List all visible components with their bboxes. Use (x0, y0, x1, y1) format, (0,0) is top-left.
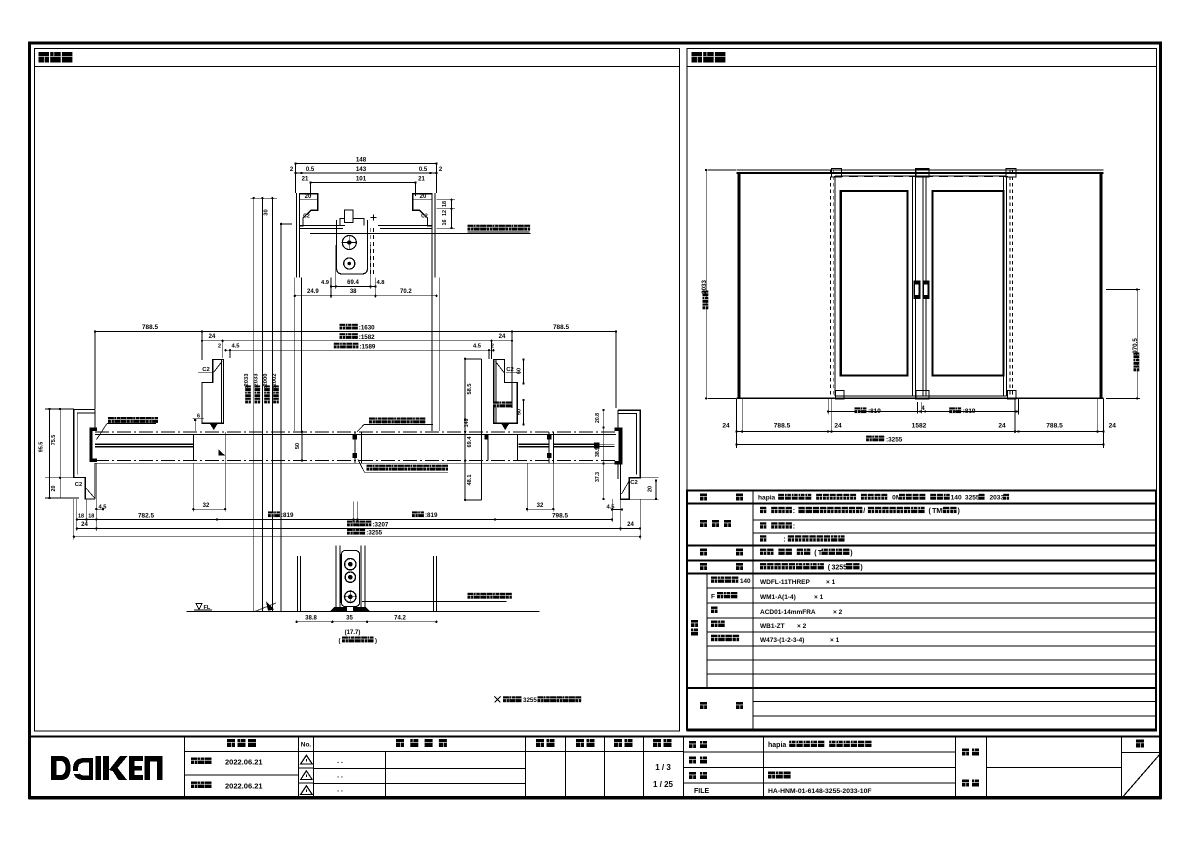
door2 stile pair (354, 432, 356, 463)
svg-text:48.1: 48.1 (467, 475, 473, 486)
bottom guide center (916, 391, 929, 400)
FL level mark (196, 604, 202, 610)
svg-text:35: 35 (346, 615, 353, 621)
svg-text:58.5: 58.5 (467, 384, 473, 395)
section height labels rotated (245, 398, 251, 404)
bottom detail guide outer left pair (335, 546, 337, 612)
right 32 dim (527, 508, 553, 510)
door1 glass panel (841, 191, 908, 376)
svg-text:75.5: 75.5 (51, 435, 57, 446)
door slabs top line (835, 175, 1007, 177)
left jamb black triangle (210, 423, 219, 430)
bottom detail dim row (297, 621, 437, 623)
把手 value (760, 549, 766, 555)
svg-text:2022.06.21: 2022.06.21 (225, 782, 263, 791)
要式 label (700, 494, 707, 501)
svg-text::819: :819 (425, 512, 438, 519)
door2 right stile pair (548, 432, 550, 463)
rail channel floor left (303, 225, 345, 227)
承認 header (536, 739, 544, 747)
bottom detail door verticals right pair (432, 556, 434, 611)
svg-text:): ) (375, 639, 377, 645)
hidden frame dashed verticals left (830, 170, 832, 398)
svg-text:× 1: × 1 (826, 579, 836, 586)
bottom guide door1 left (836, 391, 845, 400)
mid-right jamb C2 profile (494, 360, 517, 424)
svg-text:95.5: 95.5 (39, 442, 45, 453)
left wall jamb profile (74, 410, 95, 500)
svg-text:20: 20 (420, 194, 427, 200)
right jamb 20 dim (655, 481, 657, 500)
left height dim line 2033 (705, 170, 707, 398)
svg-text:798.5: 798.5 (552, 512, 568, 519)
svg-text:2: 2 (290, 167, 294, 173)
front view head bottom line (737, 172, 1104, 174)
svg-text::2033: :2033 (254, 373, 260, 389)
改訂履歴 header (396, 739, 404, 747)
vertical frame member pocket in band (487, 434, 489, 460)
svg-text:2: 2 (439, 167, 443, 173)
svg-text:4.8: 4.8 (376, 280, 385, 286)
svg-text:60: 60 (517, 368, 523, 374)
svg-text:16: 16 (442, 220, 448, 226)
top detail dim row 21 101 21 (311, 182, 416, 184)
svg-text:(17.7): (17.7) (345, 630, 361, 636)
図名 value 三面図 (768, 772, 775, 779)
spec table outer (687, 491, 1156, 730)
svg-text:788.5: 788.5 (1046, 423, 1063, 430)
svg-text:. .: . . (337, 787, 343, 794)
floor line (186, 610, 539, 612)
svg-text:(: ( (814, 550, 817, 557)
right panel frame (687, 49, 1157, 732)
svg-text:C2: C2 (421, 213, 428, 219)
rail channel floor right (378, 225, 432, 227)
right jamb C2 chamfer (622, 481, 630, 494)
overall width dim row 3255 (737, 444, 1104, 446)
mid-right jamb 50 dim (523, 400, 525, 425)
right panel title band line (687, 65, 1157, 67)
bottom dim row 4.9 69.4 4.8 (331, 285, 375, 287)
改訂日 label and date (191, 782, 198, 789)
svg-text:0.5: 0.5 (306, 167, 315, 173)
svg-text:30: 30 (264, 209, 270, 215)
svg-text:No.: No. (301, 742, 312, 749)
svg-text::2033: :2033 (701, 280, 708, 296)
left panel frame (35, 49, 680, 732)
svg-text:24: 24 (722, 423, 730, 430)
left 32 dim (193, 508, 225, 510)
svg-text::1589: :1589 (360, 344, 376, 351)
制定日 label and date (191, 758, 198, 765)
svg-text:782.5: 782.5 (138, 512, 154, 519)
svg-text:788.5: 788.5 (774, 423, 791, 430)
mid-right jamb 60 dim (523, 359, 525, 383)
金物 label (700, 563, 707, 570)
仕上げ label (700, 520, 707, 527)
spec table thin row lines value col (753, 519, 1156, 521)
制定日 row line (185, 774, 299, 776)
title block header row line (185, 751, 684, 753)
hidden head rail dashed line (834, 175, 1010, 177)
rail housing outer verticals (296, 193, 298, 277)
頁 header line (1122, 752, 1162, 754)
件名 label (962, 749, 969, 756)
svg-text:4.5: 4.5 (473, 344, 482, 350)
品番 sub column line (706, 574, 708, 689)
svg-text:788.5: 788.5 (553, 324, 569, 331)
svg-text::3207: :3207 (373, 521, 389, 528)
small dim in band (301, 432, 303, 461)
plan top dim row 1630 (95, 330, 616, 332)
把手 label (700, 549, 707, 556)
備考 label (700, 702, 707, 709)
svg-text::819: :819 (868, 408, 881, 415)
note 寸法は3255幅の場合を示す (495, 697, 501, 703)
svg-text:(: ( (339, 639, 341, 645)
諸員 label (962, 780, 969, 787)
door2 right edge (1003, 176, 1005, 396)
svg-text:WDFL-11THREP: WDFL-11THREP (760, 579, 811, 586)
svg-text:4: 4 (921, 405, 925, 412)
spec table thick row lines (687, 503, 1156, 505)
svg-text:hapia: hapia (768, 742, 786, 749)
svg-text:20: 20 (305, 194, 312, 200)
right panel title 正面図 (692, 52, 703, 63)
plan band top inner line (95, 433, 616, 435)
floor left arrow (266, 602, 275, 611)
left panel title band line (35, 65, 680, 67)
svg-text::970.5: :970.5 (1132, 338, 1139, 356)
plan bottom dim row B 3207 (77, 527, 640, 529)
top detail dim row 148 (296, 163, 437, 165)
left jamb chamfer diagonal (214, 362, 223, 373)
plan band bottom boundary dash-dot (95, 460, 616, 462)
svg-text:24.9: 24.9 (307, 289, 319, 295)
svg-text:24: 24 (834, 423, 842, 430)
leader 点線は芯材位置を示す (369, 418, 375, 424)
front view floor line (737, 397, 1104, 399)
svg-text:F: F (711, 594, 715, 601)
確認 header (576, 739, 584, 747)
svg-text:24: 24 (998, 423, 1006, 430)
door2 glass panel (933, 191, 1004, 376)
right dim label 引手高 970.5 (1134, 366, 1140, 372)
frame width dim row (737, 431, 1104, 433)
svg-text:32: 32 (203, 503, 210, 509)
svg-text:18: 18 (78, 513, 84, 519)
モヘア label and triangle (493, 402, 499, 408)
tall stud verticals right-center (464, 359, 466, 500)
svg-text:FILE: FILE (694, 788, 709, 795)
svg-text::3255: :3255 (366, 530, 382, 537)
svg-text::: : (793, 508, 795, 515)
仕上げ row2 value (760, 522, 766, 528)
金物 value (760, 563, 766, 569)
roller housing (337, 220, 368, 274)
svg-text:(: ( (828, 564, 831, 571)
svg-text:WM1-A(1-4): WM1-A(1-4) (760, 594, 796, 601)
leader 引戸用床見切レール 別途部品 (367, 465, 373, 471)
revision row lines (314, 768, 526, 770)
錠前無し label (711, 635, 718, 642)
spec table thin row lines full (707, 587, 1156, 589)
right side dim 18 12 16 (451, 200, 453, 228)
rail right ear block (413, 194, 432, 226)
svg-text::3255: :3255 (886, 436, 903, 443)
door slab thick middle segment right (519, 443, 549, 445)
svg-text:74.2: 74.2 (394, 615, 406, 621)
svg-text:143: 143 (356, 166, 367, 173)
svg-text:W473-(1-2-3-4): W473-(1-2-3-4) (760, 637, 804, 644)
roller top circle (342, 236, 356, 250)
頁 label (1136, 740, 1144, 748)
front view extension verticals below (736, 398, 738, 448)
svg-text:20: 20 (648, 486, 654, 492)
bottom detail guide outer right pair (360, 546, 362, 612)
svg-text:): ) (860, 564, 862, 571)
svg-text:/: / (863, 508, 865, 515)
svg-text::819: :819 (281, 512, 294, 519)
left jamb cap black bracket (90, 428, 93, 463)
svg-text:3255: 3255 (965, 495, 980, 502)
svg-text:WB1-ZT: WB1-ZT (760, 623, 785, 630)
svg-text:69.4: 69.4 (467, 436, 473, 448)
pocket verticals left (192, 434, 194, 460)
svg-text:32: 32 (537, 503, 544, 509)
extension verticals to bottom dims (330, 277, 332, 298)
front view right wall edge (1100, 172, 1103, 398)
svg-text:140: 140 (951, 495, 962, 502)
svg-text:1582: 1582 (912, 423, 927, 430)
right wall jamb profile (618, 410, 640, 499)
svg-text::: : (783, 537, 785, 544)
name column row lines (684, 751, 956, 753)
door width texts 扉幅:819 4 扉幅:819 (855, 407, 861, 413)
svg-text::: : (793, 524, 795, 531)
svg-text:24: 24 (1109, 423, 1117, 430)
rail left ear block (300, 194, 318, 226)
plan bottom dim row A (77, 518, 612, 520)
svg-text:× 1: × 1 (814, 594, 824, 601)
door2 left stile (922, 176, 924, 396)
svg-text:24: 24 (499, 334, 506, 340)
right height dim extension lines (1106, 289, 1140, 291)
handle door2 (922, 280, 929, 299)
left-center C2 jamb profile (202, 360, 224, 424)
spec table label column line (752, 491, 754, 730)
svg-text:50: 50 (295, 443, 301, 449)
品番 label (691, 620, 698, 627)
品番 label (689, 757, 696, 764)
bottom guide right (1008, 391, 1017, 400)
top detail dim row 2 0.5 143 0.5 2 (296, 172, 437, 174)
svg-text:70.2: 70.2 (400, 289, 412, 295)
bottom dim row 24.9 38 70.2 (295, 295, 437, 297)
svg-text::2033: :2033 (244, 373, 250, 389)
svg-text::1630: :1630 (359, 325, 375, 332)
svg-text:788.5: 788.5 (142, 324, 158, 331)
leader 引戸PB当りキャップ (108, 417, 114, 423)
hanger bracket top left (832, 169, 842, 177)
left jamb C2 chamfer (86, 488, 95, 498)
tall stud dim ticks (464, 359, 466, 500)
handle door1 (913, 280, 920, 299)
rail bottom flange line (310, 232, 531, 234)
svg-text::2000: :2000 (263, 374, 269, 389)
svg-text:24: 24 (209, 334, 216, 340)
svg-text:101: 101 (356, 176, 367, 183)
left wall height dims 95.5 75.5 20 (48, 409, 50, 498)
warning triangles (301, 755, 313, 764)
svg-text:12: 12 (442, 210, 448, 216)
svg-text:C2: C2 (630, 480, 637, 486)
引手 label (711, 621, 718, 628)
仕上げ row3 value (760, 535, 766, 541)
hanger bracket top center (916, 169, 929, 177)
plan band top boundary dash-dot (95, 431, 616, 433)
svg-text::1582: :1582 (359, 334, 375, 341)
svg-text:× 1: × 1 (830, 637, 840, 644)
door slabs bottom line (835, 395, 1007, 397)
verticals from rail down to plan band (294, 277, 296, 431)
front view head top line (737, 169, 1104, 171)
plan bottom dim row C 3255 (74, 536, 640, 538)
名称 label (689, 741, 696, 748)
extension verticals for 148 dims (295, 164, 297, 194)
plan top dim row 1589 (226, 349, 494, 351)
bottom detail door verticals left pair (297, 556, 299, 611)
leader フラットレール (468, 593, 474, 599)
スリム枠140 label (711, 577, 717, 583)
第1版 header (227, 739, 235, 747)
plan top dim row 1582 (202, 340, 512, 342)
front view left wall edge (738, 172, 741, 398)
svg-text:18: 18 (88, 513, 94, 519)
svg-text:HA-HNM-01-6148-3255-2033-10F: HA-HNM-01-6148-3255-2033-10F (768, 788, 872, 795)
仕上げ row1 value (760, 507, 766, 513)
svg-text:18: 18 (442, 201, 448, 207)
left dim label 枠外高 2033 (703, 304, 709, 310)
svg-text:C2: C2 (303, 213, 310, 219)
plan dim extension verticals top (94, 331, 96, 409)
作成 header (614, 739, 622, 747)
svg-text:69.4: 69.4 (347, 280, 359, 286)
件名 row divider (987, 767, 1122, 769)
svg-text:38: 38 (350, 289, 357, 295)
svg-text:148: 148 (356, 156, 367, 163)
door edge triangle mark (219, 450, 226, 456)
扉 label (711, 607, 718, 614)
svg-text:24: 24 (81, 522, 88, 528)
hanger bolt (345, 210, 354, 222)
svg-text:2: 2 (218, 344, 221, 350)
図名 label (689, 772, 696, 779)
svg-text:C2: C2 (75, 482, 82, 488)
roller hidden dashed pair (369, 228, 371, 277)
hidden frame dashed verticals right (1009, 170, 1011, 398)
svg-text::2002: :2002 (272, 374, 278, 389)
svg-text:(: ( (928, 508, 931, 515)
No column row lines (299, 767, 314, 769)
bottom detail guide screws (345, 559, 356, 570)
right jamb cap black bracket (619, 428, 623, 465)
svg-text:38.5: 38.5 (595, 447, 601, 457)
svg-text:× 2: × 2 (797, 623, 807, 630)
svg-text:38.8: 38.8 (305, 615, 317, 621)
svg-text:1 / 25: 1 / 25 (653, 780, 674, 789)
title block column lines (184, 737, 186, 799)
thin track lines to right jamb (599, 443, 615, 445)
svg-text:4.5: 4.5 (231, 344, 240, 350)
left panel title 断面図 (39, 52, 50, 63)
svg-text:24: 24 (627, 522, 634, 528)
floor wedge blocks (330, 607, 347, 611)
left height dim extension lines (708, 169, 736, 171)
svg-text:2022.06.21: 2022.06.21 (225, 758, 263, 767)
overall width text 枠外幅:3255 (866, 436, 872, 442)
縮尺 header (653, 739, 661, 747)
left vertical dim lines of section (251, 197, 278, 199)
svg-text:4.9: 4.9 (321, 280, 330, 286)
svg-text:148: 148 (464, 419, 470, 428)
svg-text:21: 21 (418, 177, 425, 183)
roller bottom circle (344, 258, 355, 269)
svg-text:20.8: 20.8 (595, 413, 601, 423)
svg-text:): ) (850, 550, 852, 557)
plan bottom extension verticals (76, 499, 78, 531)
svg-text:hapia: hapia (758, 495, 776, 502)
svg-text::819: :819 (963, 408, 976, 415)
right dim line 970.5 (1136, 290, 1138, 399)
svg-text:50: 50 (517, 409, 523, 415)
title block outer (30, 737, 1161, 799)
svg-text:1 / 3: 1 / 3 (655, 763, 671, 772)
svg-text:3255: 3255 (831, 564, 847, 571)
DAIKEN logo (51, 756, 71, 780)
page diagonal (1123, 754, 1161, 798)
svg-text:20: 20 (51, 486, 57, 492)
svg-text:37.3: 37.3 (595, 472, 601, 482)
svg-text:ACD01-14mmFRA: ACD01-14mmFRA (760, 609, 816, 616)
hanger channel mouth (340, 210, 364, 226)
door width dim row (828, 411, 1017, 413)
hanger bracket top right (1006, 169, 1016, 177)
bottom detail guide inner housing (341, 551, 359, 607)
svg-text:. .: . . (337, 758, 343, 765)
svg-text:× 2: × 2 (833, 609, 843, 616)
svg-text:): ) (957, 508, 959, 515)
plan band bottom inner line (95, 462, 616, 464)
svg-text:. .: . . (337, 773, 343, 780)
svg-text:0.5: 0.5 (419, 167, 428, 173)
leader label 吊車レール 別途部品 (468, 225, 474, 231)
right jamb chamfer diagonal (496, 362, 505, 373)
svg-text:3255: 3255 (523, 697, 537, 704)
door1 slab left edge (834, 176, 836, 396)
svg-text:21: 21 (302, 177, 309, 183)
door1 right stile (912, 176, 914, 396)
svg-text:2033: 2033 (989, 495, 1004, 502)
svg-text:140: 140 (740, 578, 751, 585)
door slab thick middle segment left (95, 443, 193, 445)
